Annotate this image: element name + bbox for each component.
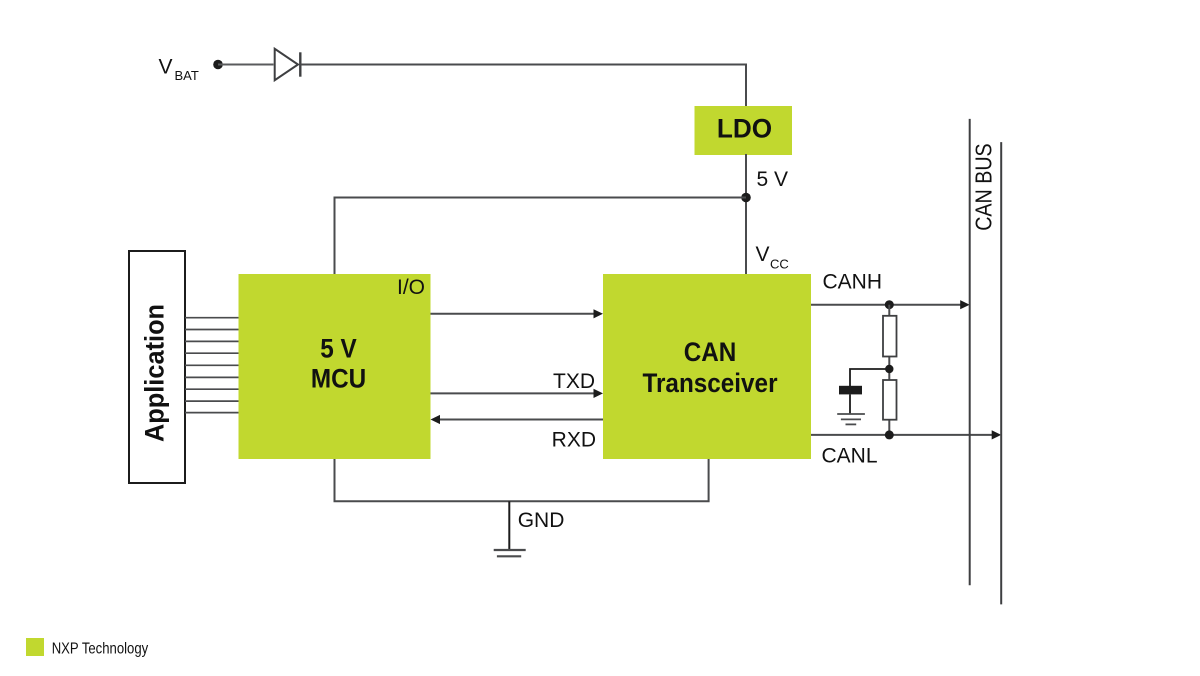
net VCC label [756, 243, 789, 272]
MCU U2 [239, 274, 431, 459]
svg-text:MCU: MCU [311, 364, 366, 393]
junction CANH node [885, 300, 894, 309]
junction CANL node [885, 430, 894, 439]
legend NXP green square [26, 638, 44, 656]
svg-text:5 V: 5 V [320, 334, 356, 363]
svg-text:5 V: 5 V [757, 168, 789, 191]
svg-text:CAN BUS: CAN BUS [971, 143, 997, 230]
CAN bus line 2 [1000, 142, 1002, 604]
svg-text:RXD: RXD [552, 429, 596, 452]
diode D1 [275, 49, 301, 80]
wire capacitor to ground [849, 394, 851, 413]
wire VBAT to diode [218, 64, 274, 66]
wire CANH with arrow [811, 300, 970, 309]
svg-text:V: V [159, 55, 173, 78]
wire GND stub [508, 501, 510, 549]
node VBAT dot [213, 60, 223, 70]
resistor RT2 [883, 380, 897, 420]
svg-text:LDO: LDO [717, 113, 772, 143]
CAN transceiver U3 [603, 274, 811, 459]
svg-text:I/O: I/O [397, 276, 425, 299]
svg-text:V: V [756, 243, 770, 266]
svg-text:CANL: CANL [822, 445, 878, 468]
wire TXD with arrow [431, 389, 604, 398]
wire CANL with arrow [811, 430, 1001, 439]
wire diode to LDO [300, 65, 746, 108]
resistor RT1 [883, 316, 897, 357]
wire 5V to MCU [335, 198, 747, 275]
ground symbol GND1 [494, 550, 526, 556]
ground symbol GND2 [837, 414, 865, 424]
LDO regulator U1 [695, 106, 793, 155]
Application block [129, 251, 185, 483]
wire LDO to VCC pin [745, 154, 747, 274]
svg-text:GND: GND [518, 509, 565, 532]
svg-text:Transceiver: Transceiver [642, 369, 777, 398]
wire I/O with arrow [431, 309, 604, 318]
svg-text:TXD: TXD [553, 370, 595, 393]
wire split to capacitor [850, 369, 889, 387]
svg-text:NXP Technology: NXP Technology [52, 640, 149, 657]
wire RXD with arrow [431, 415, 604, 424]
wire GND net [335, 459, 709, 501]
wire termination network [888, 305, 890, 435]
net VBAT label [159, 55, 199, 83]
junction 5V node [741, 193, 751, 203]
application bus wires (9) [185, 318, 239, 413]
capacitor CT [839, 386, 862, 395]
svg-text:CANH: CANH [823, 271, 883, 294]
svg-text:CC: CC [770, 257, 789, 272]
svg-text:BAT: BAT [175, 68, 199, 83]
junction termination split node [885, 365, 893, 373]
svg-text:Application: Application [139, 304, 170, 442]
CAN bus line 1 [969, 119, 971, 585]
svg-text:CAN: CAN [684, 338, 737, 367]
